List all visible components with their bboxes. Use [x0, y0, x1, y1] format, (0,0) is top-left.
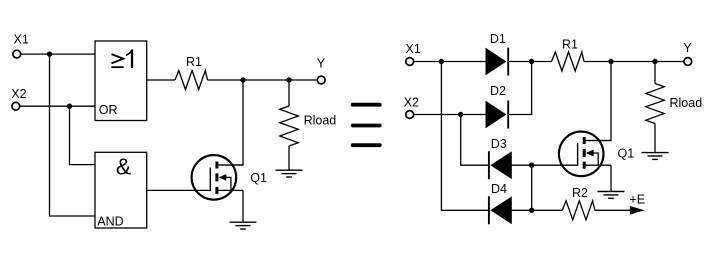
junction drain node (left) [240, 77, 245, 82]
junction X2 node (right) [458, 112, 463, 117]
ground Rload (right) [642, 152, 669, 154]
wire D3 node to D4 node [531, 165, 533, 210]
svg-text:R2: R2 [572, 186, 588, 200]
wire Q1 source to ground (left) [242, 190, 244, 222]
wire X2 to OR input [20, 105, 95, 107]
transistor Q1 (right MOSFET) [559, 132, 604, 177]
resistor R1 (left) [175, 71, 208, 90]
wire node to R1 (right) [532, 61, 552, 63]
input terminal X1 (right) [406, 58, 414, 66]
OR gate box [95, 41, 147, 121]
svg-text:D2: D2 [490, 84, 506, 98]
junction drain node (right) [608, 59, 613, 64]
AND gate box [95, 152, 147, 228]
wire AND output to Q1 gate [147, 189, 211, 191]
wire drain of Q1 (left) [220, 80, 243, 165]
wire D2 cathode up to node [508, 62, 531, 115]
wire D4 anode to R2 [511, 209, 562, 211]
diode D3 [491, 152, 511, 178]
input terminal X2 (left) [12, 102, 20, 110]
svg-text:Q1: Q1 [250, 171, 267, 185]
svg-text:Y: Y [683, 41, 692, 55]
svg-text:OR: OR [99, 103, 118, 117]
junction Rload node (left) [286, 77, 291, 82]
svg-text:+E: +E [629, 193, 645, 207]
svg-text:Rload: Rload [670, 96, 703, 110]
svg-text:X2: X2 [404, 95, 419, 109]
svg-text:R1: R1 [562, 38, 578, 52]
svg-text:X1: X1 [14, 33, 29, 47]
wire D1 cathode to node [508, 61, 531, 63]
junction D4 node [529, 208, 534, 213]
svg-text:R1: R1 [186, 55, 202, 69]
junction X1 node (left) [47, 51, 52, 56]
svg-text:D3: D3 [491, 137, 507, 151]
resistor Rload (right) [654, 62, 656, 84]
wire R2 to +E supply [595, 209, 631, 211]
wire OR output to R1 [147, 79, 175, 81]
svg-text:Q1: Q1 [618, 147, 635, 161]
wire X1 branch to D4 [441, 62, 489, 211]
svg-text:AND: AND [97, 215, 123, 229]
svg-text:X1: X1 [406, 42, 421, 56]
OR gate symbol label ≥1 [112, 54, 124, 63]
wire X1 branch to AND lower input [50, 54, 96, 216]
ground Rload (left) [276, 169, 303, 171]
resistor R2 [562, 201, 595, 220]
wire X1 to OR input [21, 53, 95, 55]
wire R1 to Y (right) [584, 61, 684, 63]
resistor R1 (right) [552, 52, 585, 71]
output terminal Y (right) [684, 58, 692, 66]
junction X2 node (left) [67, 104, 72, 109]
wire X2 branch to AND upper input [70, 106, 96, 164]
input terminal X1 (left) [13, 50, 21, 58]
transistor Q1 (left MOSFET) [192, 155, 237, 200]
input terminal X2 (right) [406, 111, 414, 119]
diode D1 [486, 49, 506, 75]
junction X1 node (right) [439, 59, 444, 64]
ground Q1 (left) [230, 221, 257, 223]
wire R1 to Y [208, 79, 318, 81]
power supply +E arrow [630, 206, 645, 215]
resistor Rload (left) [288, 80, 290, 106]
wire X2 to D2 anode [414, 114, 486, 116]
svg-text:X2: X2 [11, 87, 26, 101]
svg-text:Rload: Rload [304, 114, 337, 128]
wire X1 to D1 anode [414, 61, 486, 63]
wire Q1 source to ground (right) [610, 165, 612, 191]
svg-text:&: & [116, 154, 131, 180]
wire X2 branch to D3 [461, 115, 489, 166]
output terminal Y (left) [317, 76, 325, 84]
diode D4 [491, 197, 511, 223]
diode D2 [486, 102, 506, 128]
svg-text:D4: D4 [491, 182, 507, 196]
junction Rload node (right) [652, 59, 657, 64]
junction D3 node [529, 163, 534, 168]
equivalence symbol [353, 103, 380, 107]
svg-text:Y: Y [317, 56, 326, 70]
ground Q1 (right) [598, 191, 625, 193]
junction D1-D2 node [529, 59, 534, 64]
svg-text:D1: D1 [490, 32, 506, 46]
wire drain of Q1 (right) [587, 62, 611, 141]
wire D3 anode to Q1 gate [511, 164, 577, 166]
